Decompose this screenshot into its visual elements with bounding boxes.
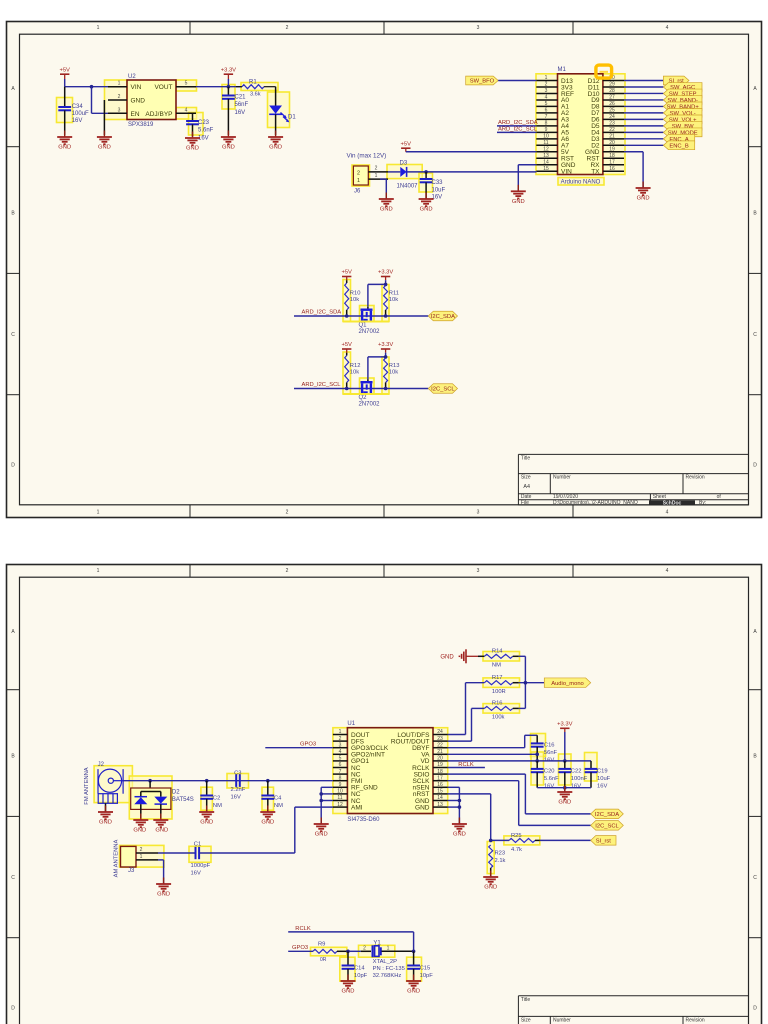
wire nSEN/GND group <box>448 787 460 824</box>
svg-text:A4: A4 <box>523 484 530 490</box>
svg-text:C33: C33 <box>432 180 444 186</box>
svg-text:10k: 10k <box>389 297 398 303</box>
wire +5V to M1 <box>406 151 537 153</box>
svg-text:ARD_I2C_SDA: ARD_I2C_SDA <box>302 309 342 315</box>
wire DBYF to C16 <box>448 735 538 747</box>
wire ARD_I2C_SCL <box>294 388 428 390</box>
svg-text:NM: NM <box>492 663 501 669</box>
highlight marker <box>596 65 612 78</box>
svg-text:6: 6 <box>545 108 548 114</box>
net label GPO3 <box>300 742 316 748</box>
svg-text:D: D <box>11 1005 15 1011</box>
selection highlight boxes <box>57 74 626 981</box>
ground J6 <box>379 193 394 213</box>
port SW_VOL- <box>663 109 702 118</box>
svg-text:16: 16 <box>609 166 615 172</box>
J6 pins <box>368 166 388 179</box>
svg-text:1: 1 <box>97 510 100 516</box>
svg-text:8: 8 <box>339 775 342 781</box>
svg-text:D: D <box>11 462 15 468</box>
ground M1 left <box>511 185 526 205</box>
ground C15 <box>406 975 421 995</box>
svg-text:25: 25 <box>609 108 615 114</box>
power +3.3V U1 <box>557 722 572 761</box>
svg-text:GND: GND <box>407 989 420 995</box>
svg-text:100uF: 100uF <box>72 111 89 117</box>
port I2C_SDA p2 <box>591 809 624 819</box>
wire ARD_I2C_SDA <box>294 315 428 317</box>
wire M1 to ENC_B <box>624 144 663 146</box>
svg-text:5: 5 <box>185 81 188 87</box>
svg-text:R10: R10 <box>350 291 361 297</box>
junction <box>319 792 323 796</box>
U1 selection box <box>0 0 1 1</box>
svg-text:ENC_B: ENC_B <box>669 144 688 150</box>
junction <box>489 839 493 843</box>
resistor R9 <box>313 941 348 963</box>
svg-text:C19: C19 <box>597 769 608 775</box>
capacitor C22 <box>558 761 587 790</box>
svg-text:R9: R9 <box>318 941 325 947</box>
resistor R23 <box>489 845 506 877</box>
svg-text:GND: GND <box>637 196 650 202</box>
svg-text:27: 27 <box>609 95 615 101</box>
junction <box>384 387 388 391</box>
svg-text:16V: 16V <box>72 118 83 124</box>
svg-text:NM: NM <box>274 803 283 809</box>
capacitor C3 <box>231 771 246 801</box>
svg-text:6: 6 <box>339 762 342 768</box>
svg-text:U1: U1 <box>347 721 355 727</box>
svg-text:I2C_SDA: I2C_SDA <box>431 314 455 320</box>
svg-text:GND: GND <box>99 820 112 826</box>
wire M1 to SW_STEP <box>624 92 663 94</box>
wire cap bottom rail <box>537 788 591 792</box>
svg-text:GND: GND <box>342 989 355 995</box>
U2 right pins <box>176 81 196 114</box>
M1 left pins <box>536 75 575 175</box>
port SW_BAND- <box>663 96 702 105</box>
power +5V R10 <box>341 270 352 281</box>
svg-text:Arduino NANO: Arduino NANO <box>561 180 601 186</box>
svg-text:GND: GND <box>315 832 328 838</box>
wire U2 GND <box>103 100 105 135</box>
svg-text:R12: R12 <box>350 363 361 369</box>
svg-text:SI4735-D60: SI4735-D60 <box>347 817 380 823</box>
junction <box>524 681 528 685</box>
svg-text:D1: D1 <box>288 115 296 121</box>
U1 right pins <box>391 729 448 811</box>
svg-text:R1: R1 <box>249 80 257 86</box>
capacitor C16 <box>531 735 558 763</box>
svg-text:GND: GND <box>261 820 274 826</box>
capacitor C2 <box>200 781 222 812</box>
svg-text:2: 2 <box>375 166 378 172</box>
svg-text:R17: R17 <box>492 675 503 681</box>
M1 selection box <box>0 0 1 1</box>
junction <box>319 799 323 803</box>
svg-text:22: 22 <box>609 127 615 133</box>
junction <box>384 355 388 359</box>
wire AMI <box>295 807 333 853</box>
ground cap bank <box>557 786 572 806</box>
port SW_BAND+ <box>663 102 702 111</box>
svg-text:GND: GND <box>420 207 433 213</box>
resistor R13 <box>384 358 400 389</box>
sheet 2 title block <box>518 996 748 1024</box>
capacitor C4 <box>261 781 283 812</box>
ground D2 b <box>153 814 168 834</box>
capacitor C14 <box>342 951 368 981</box>
power +3.3V R11 <box>378 270 393 281</box>
junction <box>563 759 567 763</box>
wire J6 pin1 to gnd <box>380 179 386 199</box>
svg-text:1: 1 <box>97 25 100 31</box>
port Audio_mono <box>544 678 590 688</box>
power +5V R12 <box>341 342 352 353</box>
ground C14 <box>341 975 356 995</box>
svg-text:C14: C14 <box>354 966 365 972</box>
svg-text:12: 12 <box>337 802 343 808</box>
svg-text:C4: C4 <box>274 796 282 802</box>
svg-text:Q1: Q1 <box>359 323 368 329</box>
svg-text:R13: R13 <box>389 363 400 369</box>
svg-text:1N4007: 1N4007 <box>397 183 419 189</box>
svg-text:3: 3 <box>118 107 121 113</box>
svg-text:C: C <box>753 332 757 338</box>
svg-text:10k: 10k <box>350 297 359 303</box>
svg-text:5.6nF: 5.6nF <box>544 776 559 782</box>
svg-text:16V: 16V <box>191 870 201 876</box>
wire M1 GND right <box>624 152 643 188</box>
svg-text:+3.3V: +3.3V <box>378 270 393 276</box>
wire ARD_I2C_SDA <box>497 125 536 127</box>
net label ARD_I2C_SCL <box>302 382 342 388</box>
M1 right pins <box>585 75 624 175</box>
wire M1 to SW_MODE <box>624 131 663 133</box>
svg-text:D: D <box>753 462 757 468</box>
svg-text:2: 2 <box>286 25 289 31</box>
svg-text:1: 1 <box>375 173 378 179</box>
svg-text:2: 2 <box>140 847 143 853</box>
svg-text:EN: EN <box>131 111 140 118</box>
svg-text:5.6nF: 5.6nF <box>198 128 214 134</box>
wire M1 to SW_VOL- <box>624 112 663 114</box>
junction <box>90 85 94 89</box>
svg-text:PN : FC-135: PN : FC-135 <box>373 966 405 972</box>
junction <box>384 314 388 318</box>
power +5V arduino <box>401 141 412 151</box>
svg-text:ARD_I2C_SCL: ARD_I2C_SCL <box>302 382 342 388</box>
wire RF_GND group <box>321 787 333 824</box>
svg-text:I2C_SCL: I2C_SCL <box>431 387 455 393</box>
svg-text:3: 3 <box>477 510 480 516</box>
ground C33 <box>419 193 434 213</box>
svg-text:1: 1 <box>545 75 548 81</box>
svg-text:Number: Number <box>553 475 571 481</box>
svg-text:GND: GND <box>186 146 199 152</box>
svg-text:4: 4 <box>185 107 188 113</box>
svg-text:GND: GND <box>200 820 213 826</box>
wire VD rail <box>448 760 591 762</box>
net label RCLK <box>458 762 474 768</box>
svg-text:GND: GND <box>415 804 430 811</box>
wire EN tie <box>92 87 109 114</box>
svg-text:GND: GND <box>512 199 525 205</box>
svg-text:I2C_SDA: I2C_SDA <box>595 812 619 818</box>
sheet 1 frame <box>7 22 762 518</box>
svg-text:Audio_mono: Audio_mono <box>551 681 584 687</box>
svg-text:29: 29 <box>609 82 615 88</box>
svg-text:Revision: Revision <box>686 475 705 481</box>
wire GPO3 <box>265 747 333 749</box>
junction <box>535 753 539 757</box>
wire R16 to ROUT <box>448 708 472 741</box>
wire FMI <box>124 780 333 782</box>
wire M1 to SW_VOL+ <box>624 118 663 120</box>
svg-text:RCLK: RCLK <box>295 926 311 932</box>
ground R23 <box>483 871 498 891</box>
svg-text:GND: GND <box>558 800 571 806</box>
wire SDIO to I2C_SDA <box>448 774 591 814</box>
svg-text:21: 21 <box>609 134 615 140</box>
net label ARD_I2C_SCL <box>498 126 538 132</box>
wire ARD_I2C_SCL <box>497 131 536 133</box>
ground D1 <box>268 131 283 151</box>
svg-text:SI_rst: SI_rst <box>596 839 612 845</box>
svg-text:FM ANTENNA: FM ANTENNA <box>84 767 90 804</box>
power +3.3V R13 <box>378 342 393 353</box>
svg-text:VIN: VIN <box>131 84 142 91</box>
svg-text:C23: C23 <box>198 120 210 126</box>
svg-text:1000pF: 1000pF <box>191 863 211 869</box>
svg-text:R16: R16 <box>492 701 503 707</box>
svg-text:U2: U2 <box>128 74 136 80</box>
wire SW_BFO to D13 <box>498 80 536 82</box>
svg-text:18: 18 <box>609 153 615 159</box>
wire M1 to ENC_A <box>624 138 663 140</box>
port SI_rst <box>663 76 689 85</box>
resistor R1 <box>236 80 276 98</box>
capacitor C23 <box>186 113 214 141</box>
transistor Q2 2N7002 <box>343 379 389 407</box>
ground C21 <box>221 131 236 151</box>
svg-text:13: 13 <box>437 802 443 808</box>
junction <box>346 950 350 954</box>
svg-text:2: 2 <box>357 171 360 177</box>
junction <box>412 950 416 954</box>
capacitor C33 <box>420 172 446 201</box>
svg-text:AMI: AMI <box>351 804 363 811</box>
svg-text:16V: 16V <box>571 784 581 790</box>
svg-text:14: 14 <box>437 795 443 801</box>
svg-text:4: 4 <box>666 510 669 516</box>
svg-text:C15: C15 <box>420 966 431 972</box>
junction <box>458 799 462 803</box>
svg-text:Revision: Revision <box>686 1017 705 1023</box>
resistor R14 <box>478 649 519 669</box>
svg-text:D3: D3 <box>400 161 408 167</box>
wire R25 to port <box>540 839 591 841</box>
wire M1 VIN <box>535 170 537 173</box>
svg-text:26: 26 <box>609 101 615 107</box>
ic U1 SI4735-D60 body <box>347 721 433 823</box>
net label GPO3 crystal <box>292 945 308 951</box>
svg-text:R23: R23 <box>495 851 506 857</box>
svg-text:4: 4 <box>666 25 669 31</box>
crystal Y1 <box>361 940 414 979</box>
svg-text:2.2nF: 2.2nF <box>231 787 246 793</box>
svg-text:2: 2 <box>339 736 342 742</box>
svg-text:+5V: +5V <box>341 342 352 348</box>
wire +3.3V to gate <box>368 280 386 307</box>
svg-text:C2: C2 <box>213 796 220 802</box>
junction <box>424 170 428 174</box>
svg-text:2: 2 <box>545 82 548 88</box>
svg-text:J3: J3 <box>128 868 135 874</box>
connector J6 <box>353 166 368 195</box>
diode D2 BAT54S <box>131 781 194 818</box>
LED D1 <box>269 87 296 135</box>
svg-text:Number: Number <box>553 1017 571 1023</box>
svg-text:15: 15 <box>543 166 549 172</box>
diode D3 1N4007 <box>397 161 419 190</box>
wire M1 to SW_BAND- <box>624 99 663 101</box>
ground C23 <box>185 132 200 152</box>
U2 pin names <box>131 84 173 118</box>
svg-text:100nF: 100nF <box>571 776 588 782</box>
wire M1 GND left <box>518 165 536 192</box>
port I2C_SDA <box>428 311 457 321</box>
ground C4 <box>260 806 275 826</box>
svg-text:R14: R14 <box>492 649 503 655</box>
svg-text:3: 3 <box>477 568 480 574</box>
connector J3 AM antenna <box>114 840 159 878</box>
svg-text:10k: 10k <box>389 370 398 376</box>
svg-text:GND: GND <box>157 892 170 898</box>
port SW_BFO <box>466 76 499 85</box>
wire M1 to SW_AGC <box>624 86 663 88</box>
svg-text:GND: GND <box>155 828 168 834</box>
wire SCLK to I2C_SCL <box>448 781 591 826</box>
svg-text:GPO3: GPO3 <box>292 945 308 951</box>
power +5V <box>59 67 70 79</box>
svg-text:5: 5 <box>545 101 548 107</box>
power +3.3V <box>221 67 236 86</box>
svg-text:2N7002: 2N7002 <box>359 329 381 335</box>
svg-text:4: 4 <box>339 749 342 755</box>
net label RCLK crystal <box>295 926 311 932</box>
wire C1 to AMI <box>199 852 295 854</box>
svg-text:2: 2 <box>363 945 366 951</box>
svg-text:C20: C20 <box>544 769 555 775</box>
svg-text:4: 4 <box>545 95 548 101</box>
svg-text:VIN: VIN <box>561 169 572 176</box>
resistor R16 <box>472 701 519 721</box>
port SW_STEP <box>663 89 702 98</box>
svg-text:C1: C1 <box>194 841 201 847</box>
wire R17 to LOUT <box>448 683 466 735</box>
port I2C_SCL <box>428 384 457 394</box>
svg-text:1: 1 <box>357 178 360 184</box>
svg-text:+3.3V: +3.3V <box>378 342 393 348</box>
capacitor C20 <box>531 761 559 790</box>
ic M1 Arduino NANO body <box>558 67 603 175</box>
svg-text:+5V: +5V <box>341 270 352 276</box>
svg-text:10uF: 10uF <box>597 776 611 782</box>
ground J2 <box>98 806 113 826</box>
svg-text:23: 23 <box>609 121 615 127</box>
svg-text:2: 2 <box>118 94 121 100</box>
svg-text:10pF: 10pF <box>420 973 434 979</box>
svg-text:TX: TX <box>591 169 600 176</box>
wire J3 pin1 to gnd <box>158 860 164 884</box>
svg-text:2.1k: 2.1k <box>495 858 506 864</box>
svg-text:XTAL_2P: XTAL_2P <box>373 959 398 965</box>
svg-text:4: 4 <box>666 568 669 574</box>
port I2C_SCL p2 <box>591 821 624 831</box>
wire VOUT to +3.3V <box>196 86 242 88</box>
svg-text:23: 23 <box>437 736 443 742</box>
capacitor C1 <box>191 841 211 876</box>
svg-text:ARD_I2C_SDA: ARD_I2C_SDA <box>498 120 538 126</box>
wire +3.3V to gate <box>368 353 386 380</box>
svg-text:10pF: 10pF <box>354 973 368 979</box>
svg-text:32.768KHz: 32.768KHz <box>373 973 402 979</box>
svg-text:7: 7 <box>339 769 342 775</box>
svg-text:Title: Title <box>521 997 530 1003</box>
svg-text:GPO3: GPO3 <box>300 742 316 748</box>
port SW_MODE <box>663 128 702 137</box>
svg-text:GND: GND <box>453 832 466 838</box>
wire GPO3 to R9 <box>288 950 313 952</box>
junction <box>148 779 152 783</box>
capacitor C19 <box>585 761 611 790</box>
svg-text:14: 14 <box>543 159 549 165</box>
svg-text:10: 10 <box>337 789 343 795</box>
svg-text:2N7002: 2N7002 <box>359 402 381 408</box>
svg-text:+5V: +5V <box>59 67 70 73</box>
svg-text:10: 10 <box>543 134 549 140</box>
ground M1 right <box>636 182 651 202</box>
svg-text:GND: GND <box>222 145 235 151</box>
svg-text:Vin (max 12V): Vin (max 12V) <box>347 153 387 160</box>
svg-text:20: 20 <box>609 140 615 146</box>
junction <box>345 387 349 391</box>
svg-text:Y1: Y1 <box>373 940 381 946</box>
svg-text:GND: GND <box>98 145 111 151</box>
svg-text:GND: GND <box>484 885 497 891</box>
junction <box>384 283 388 287</box>
ground U1 left <box>314 818 329 838</box>
junction <box>227 85 231 89</box>
resistor R25 <box>491 833 540 853</box>
capacitor C34 <box>58 87 89 135</box>
svg-text:15: 15 <box>437 789 443 795</box>
wire VA <box>448 753 538 755</box>
connector J2 FM antenna <box>84 762 124 812</box>
label Vin (max 12V) <box>347 153 387 160</box>
port SW_BW <box>663 121 702 130</box>
net label ARD_I2C_SDA <box>498 120 538 126</box>
svg-text:20: 20 <box>437 756 443 762</box>
M1 designator Arduino NANO <box>561 180 601 186</box>
svg-text:21: 21 <box>437 749 443 755</box>
svg-text:C22: C22 <box>571 769 582 775</box>
svg-text:17: 17 <box>609 159 615 165</box>
svg-text:4.7k: 4.7k <box>511 847 522 853</box>
svg-text:8: 8 <box>545 121 548 127</box>
